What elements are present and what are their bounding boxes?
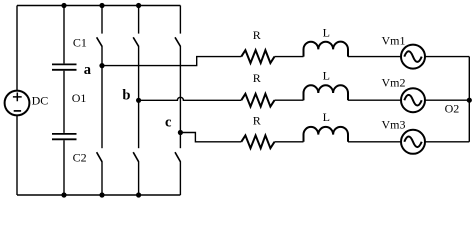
junction dot bottom rail / capacitor branch	[61, 192, 66, 197]
leg 3 lower wire	[179, 161, 181, 195]
switch blade S6	[133, 152, 138, 162]
switch blade S5	[175, 37, 180, 46]
svg-text:O2: O2	[445, 101, 460, 115]
node b	[136, 98, 141, 103]
resistor R row 1	[241, 50, 274, 63]
resistor R row 2	[241, 94, 274, 107]
wire row 3 between R and L	[275, 141, 304, 143]
wire row 1 between R and L	[275, 56, 304, 58]
wire row 3 to right bus	[425, 141, 469, 143]
svg-text:R: R	[253, 71, 261, 85]
svg-text:R: R	[253, 28, 261, 42]
inductor L row 3	[304, 127, 349, 142]
wire row 1 to right bus	[425, 56, 469, 58]
wire left bus lower	[16, 115, 18, 195]
svg-text:C2: C2	[73, 150, 87, 164]
wire row 2 to Vm2	[348, 99, 401, 101]
junction dot top rail / leg 1	[99, 3, 104, 8]
wire capacitor branch top	[63, 6, 65, 64]
AC source Vm2	[401, 88, 425, 112]
wire right bus	[468, 57, 470, 142]
leg 1 upper stub	[101, 6, 103, 34]
AC source Vm1	[401, 45, 425, 69]
svg-text:L: L	[323, 26, 330, 40]
svg-text:Vm2: Vm2	[382, 76, 406, 90]
leg 1 lower wire	[101, 161, 103, 195]
leg 2 upper stub	[138, 6, 140, 34]
wire capacitor branch bottom	[63, 140, 65, 195]
wire bottom rail	[17, 194, 180, 196]
wire row 1 to Vm1	[348, 56, 401, 58]
svg-text:C1: C1	[73, 35, 87, 49]
wire phase a to row 1	[102, 57, 241, 66]
leg 2 lower wire	[138, 161, 140, 195]
junction dot top rail / capacitor branch	[61, 3, 66, 8]
switch blade S3	[133, 37, 138, 46]
wire row 2 to right bus	[425, 99, 469, 101]
leg 1 middle wire	[101, 46, 103, 148]
wire capacitor branch middle (node O1)	[63, 71, 65, 133]
wire phase c to row 3	[180, 133, 241, 142]
AC source Vm3	[401, 130, 425, 154]
inductor L row 2	[304, 85, 349, 100]
svg-text:b: b	[122, 88, 130, 104]
switch blade S1	[97, 37, 102, 46]
switch blade S4	[97, 152, 102, 162]
leg 3 upper stub	[179, 6, 181, 34]
node O2	[467, 98, 472, 103]
svg-text:a: a	[84, 62, 92, 78]
wire phase b to row 2 (hop over leg 3)	[139, 97, 242, 100]
junction dot bottom rail / leg 1	[99, 192, 104, 197]
svg-text:L: L	[323, 69, 330, 83]
svg-text:Vm1: Vm1	[382, 33, 406, 47]
switch blade S2	[175, 152, 180, 162]
svg-text:DC: DC	[32, 93, 49, 107]
wire row 2 between R and L	[275, 99, 304, 101]
DC source V1	[5, 91, 30, 116]
node a	[99, 63, 104, 68]
wire left bus upper	[16, 6, 18, 91]
capacitor C1	[52, 64, 77, 69]
node c	[178, 130, 183, 135]
wire top rail	[17, 5, 180, 7]
svg-text:R: R	[253, 114, 261, 128]
inductor L row 1	[304, 42, 349, 57]
junction dot top rail / leg 2	[136, 3, 141, 8]
svg-text:L: L	[323, 110, 330, 124]
capacitor C2	[52, 134, 77, 139]
wire row 3 to Vm3	[348, 141, 401, 143]
svg-text:O1: O1	[72, 91, 87, 105]
leg 2 middle wire	[138, 46, 140, 148]
resistor R row 3	[241, 135, 274, 148]
junction dot bottom rail / leg 2	[136, 192, 141, 197]
leg 3 middle wire	[179, 46, 181, 148]
svg-text:Vm3: Vm3	[382, 117, 406, 131]
svg-text:c: c	[165, 114, 172, 130]
